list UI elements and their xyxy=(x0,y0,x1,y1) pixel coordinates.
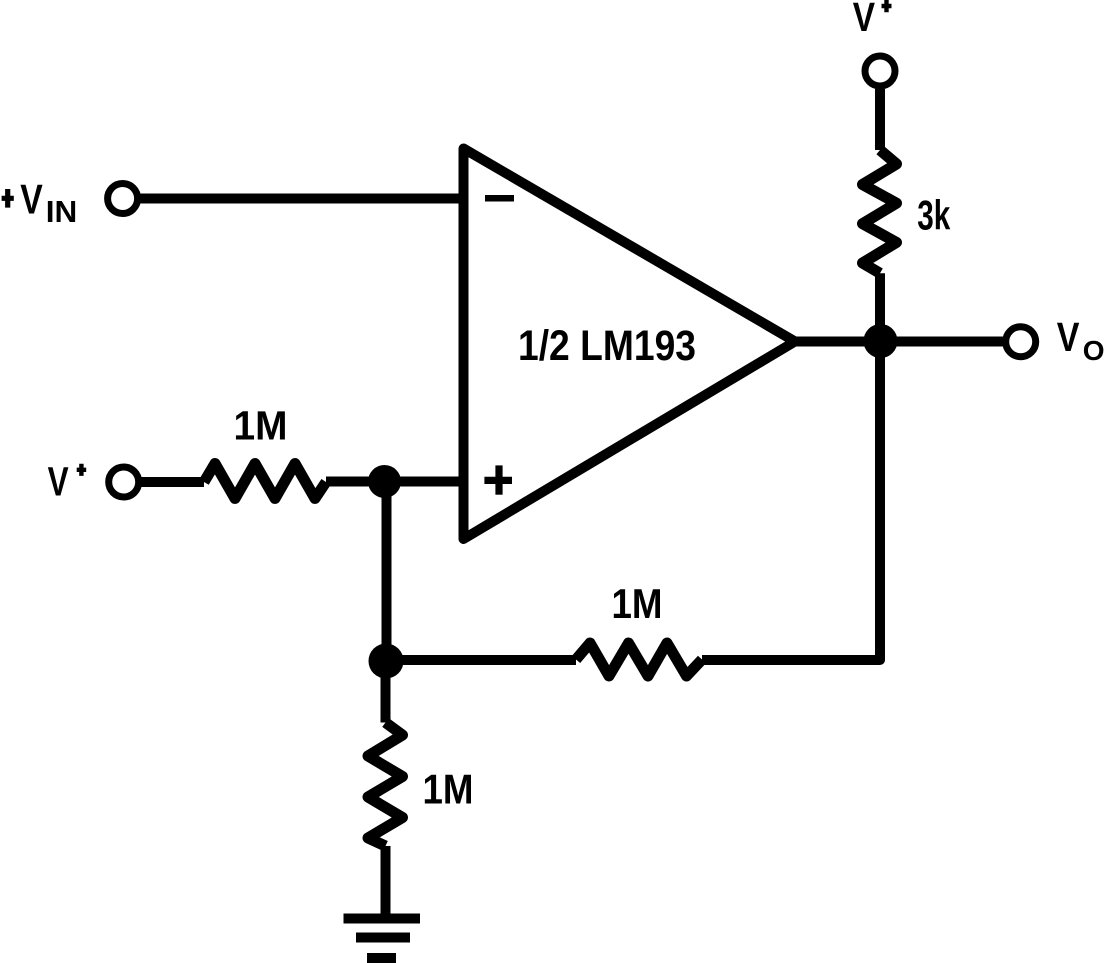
wire R4 to ground xyxy=(381,846,391,914)
resistor R3 3k xyxy=(863,150,897,273)
svg-text:IN: IN xyxy=(46,194,78,229)
svg-text:O: O xyxy=(1083,335,1105,366)
terminal V+ left xyxy=(109,467,139,497)
svg-text:1M: 1M xyxy=(612,580,663,627)
svg-text:V: V xyxy=(20,175,43,222)
svg-text:V: V xyxy=(1057,314,1080,360)
svg-text:3k: 3k xyxy=(917,192,950,239)
svg-text:1M: 1M xyxy=(234,402,288,448)
svg-text:1M: 1M xyxy=(423,765,474,812)
label V+ left xyxy=(48,459,87,505)
wire V+ top to R3 xyxy=(875,89,885,150)
node A non-inverting junction xyxy=(368,465,401,498)
svg-text:1/2 LM193: 1/2 LM193 xyxy=(518,322,696,370)
resistor R2 1M feedback xyxy=(576,643,702,676)
wire op-amp output to VO terminal xyxy=(795,337,1003,347)
terminal +VIN xyxy=(108,184,138,214)
wire R2 to output node riser xyxy=(702,342,880,661)
terminal VO xyxy=(1006,327,1036,357)
resistor R1 1M xyxy=(204,464,326,499)
wire node B to R4 xyxy=(381,660,391,723)
wire node A to node B xyxy=(382,482,392,661)
label V+ top xyxy=(853,0,892,40)
wire R3 to output node xyxy=(875,273,885,341)
non-inverting input plus symbol xyxy=(484,465,512,494)
wire V+ terminal to R1 xyxy=(140,477,204,487)
inverting input minus symbol xyxy=(485,195,514,202)
node C output junction xyxy=(864,324,898,358)
wire node B to R2 xyxy=(386,655,577,665)
wire R1 to non-inverting input xyxy=(326,477,468,487)
terminal V+ top xyxy=(865,56,895,86)
label +VIN xyxy=(2,175,78,229)
wire +VIN to inverting input xyxy=(139,194,468,204)
ground xyxy=(344,919,421,959)
label VO xyxy=(1057,314,1105,366)
node B feedback junction xyxy=(369,644,404,679)
svg-text:V: V xyxy=(48,459,69,505)
svg-text:V: V xyxy=(853,0,876,40)
op-amp U1 1/2 LM193 xyxy=(464,149,796,540)
resistor R4 1M to ground xyxy=(368,723,403,847)
